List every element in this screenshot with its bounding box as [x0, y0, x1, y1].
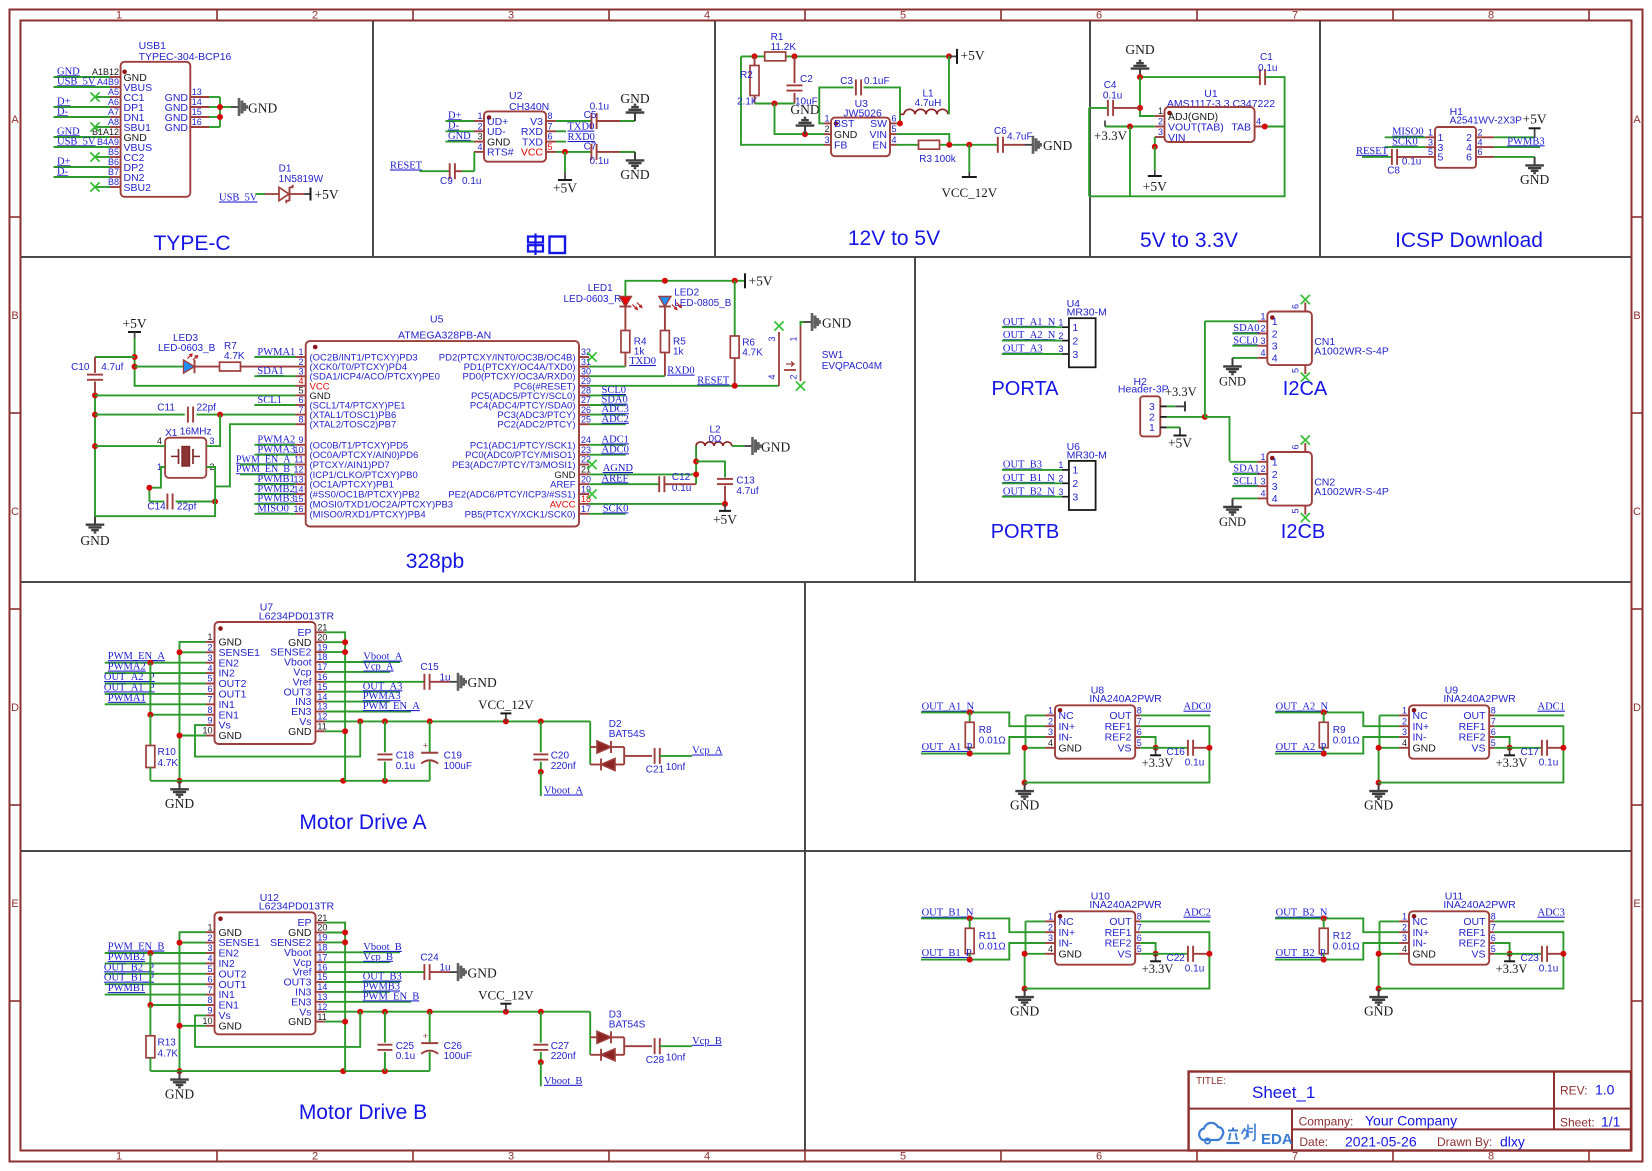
diode D1 1N5819W refdes: [279, 164, 324, 186]
net label Vboot_A below cap: [541, 772, 584, 797]
svg-text:14: 14: [317, 692, 327, 702]
svg-text:R8: R8: [979, 725, 992, 736]
net label PWMA1 / wire to U5 pin 1: [254, 347, 295, 358]
USB1 pin 16 (GND): [165, 117, 209, 134]
svg-text:Sheet_1: Sheet_1: [1252, 1083, 1315, 1102]
crystal X1 inner symbol: [171, 447, 200, 467]
resistor R6 4.7K: [730, 281, 763, 359]
svg-text:3: 3: [508, 1151, 514, 1163]
IC U3 body: [831, 118, 890, 157]
svg-text:AREF: AREF: [602, 473, 629, 484]
section title 5V to 3.3V: [1140, 229, 1238, 252]
U7 pin 21 (EP): [297, 623, 327, 639]
svg-text:+3.3V: +3.3V: [1496, 962, 1528, 976]
power flag VCC_12V: [478, 987, 534, 1011]
wire VIN down to +5V flag: [1152, 137, 1158, 150]
wire U9 NC pin to GND vertical: [1380, 715, 1399, 747]
svg-text:B5: B5: [108, 147, 119, 157]
net label OUT_B1_N / wire to U6 pin 2: [1002, 473, 1062, 484]
CN2 pin 1 marker dot: [1270, 456, 1275, 461]
U7 pin 10 (GND): [202, 726, 242, 742]
CN2 pin 1: [1257, 452, 1278, 469]
svg-text:7: 7: [207, 695, 212, 705]
U7 pin 15 (OUT3): [283, 682, 327, 698]
net label PWMB3 / wire on H1 pin 4: [1494, 136, 1544, 147]
H1 pin 2 right: [1466, 128, 1494, 145]
no-connect X on pin A5: [90, 92, 110, 101]
crystal X1 pin numbers: [157, 436, 215, 472]
CN1 pin 5 no-connect: [1290, 365, 1310, 382]
U12 pin 17 (Vcp): [293, 952, 327, 968]
wire VS to bypass cap: [1494, 747, 1542, 749]
section title 12V to 5V: [848, 227, 940, 250]
svg-text:0.1u: 0.1u: [396, 1051, 415, 1062]
svg-text:6: 6: [207, 974, 212, 984]
section divider vertical motorB/ina: [804, 851, 806, 1150]
U10 pin 5 (VS): [1117, 944, 1141, 960]
svg-text:4: 4: [1256, 117, 1261, 127]
USB1 pin B1A12 (GND): [92, 127, 147, 144]
crystal X1 16MHz refdes: [165, 427, 211, 440]
U9 pin 3 (IN-): [1399, 727, 1427, 743]
connector U6 MR30-M refdes: [1067, 441, 1107, 462]
net label D- / wire to pin B7: [54, 166, 111, 177]
net label ADC0 / wire on OUT pin: [1140, 702, 1211, 716]
power flag GND at L2: [745, 437, 791, 455]
svg-text:SDA0: SDA0: [1233, 323, 1259, 334]
title block Sheet number: [1560, 1114, 1621, 1130]
svg-text:Company:: Company:: [1299, 1115, 1354, 1129]
net label PWMA2 / wire to U5 pin 9: [254, 435, 295, 446]
net label RESET left of C9: [390, 161, 423, 172]
resistor R7 4.7K: [220, 341, 245, 371]
svg-text:OUT_A1_P: OUT_A1_P: [104, 682, 155, 693]
U5 pin 2 ((XCK0/T0/PTCXY)PD4): [296, 357, 408, 373]
svg-text:2: 2: [1058, 331, 1063, 341]
IC U8 body: [1055, 705, 1135, 758]
svg-text:5: 5: [1137, 944, 1142, 954]
svg-text:4.7K: 4.7K: [158, 1048, 179, 1059]
svg-text:5: 5: [298, 386, 303, 396]
net label PWM_EN_B / wire on U12 pin 13: [325, 991, 420, 1002]
svg-text:0.1u: 0.1u: [1185, 963, 1204, 974]
title block Company: [1299, 1113, 1457, 1129]
capacitor C22 0.1u: [1167, 946, 1205, 975]
U8 pin 4 (GND): [1045, 738, 1082, 754]
svg-text:B4A9: B4A9: [97, 137, 119, 147]
wire D2 common cathode: [624, 747, 652, 765]
svg-text:2: 2: [1402, 922, 1407, 932]
wire VIN to 12V node: [897, 134, 950, 145]
U4 pin 3: [1058, 344, 1078, 361]
wire C3 to SW node: [864, 87, 901, 123]
resistor R9 0.01 ohm: [1319, 712, 1360, 753]
svg-text:22pf: 22pf: [197, 403, 217, 414]
svg-text:6: 6: [1096, 1151, 1102, 1163]
wire CN2 pin 4 to GND: [1233, 497, 1258, 499]
svg-text:8: 8: [1137, 912, 1142, 922]
svg-text:TITLE:: TITLE:: [1196, 1076, 1226, 1087]
net label OUT_A2_N / wire to U4 pin 2: [1002, 330, 1062, 341]
section title TYPE-C: [153, 232, 230, 255]
svg-text:3: 3: [207, 653, 212, 663]
U1 pin 3 (VIN): [1155, 127, 1186, 144]
capacitor C13 4.7uf: [717, 476, 759, 498]
U12 pin 8 (EN1): [206, 995, 239, 1011]
net label PWMB1 / wire to U12 pin 7: [105, 983, 206, 995]
net label D+ / wire to pin A6: [54, 96, 111, 107]
wire C to GND flag: [430, 681, 451, 683]
power flag GND at SW1: [804, 313, 882, 372]
net label PWMA1 / wire to U7 pin 7: [105, 693, 206, 705]
no-connect X on pin B5: [90, 152, 110, 161]
section title I2CA: [1283, 378, 1328, 400]
svg-text:16MHz: 16MHz: [180, 427, 212, 438]
U7 pin 6 (OUT1): [206, 684, 247, 700]
svg-text:Vboot_A: Vboot_A: [544, 786, 584, 797]
svg-text:1.0: 1.0: [1595, 1082, 1615, 1098]
capacitor C5 0.1u: [584, 102, 609, 130]
svg-text:0.1u: 0.1u: [590, 156, 609, 167]
U3 pin 3 (FB): [824, 135, 847, 152]
USB1 pin 1 marker dot: [122, 70, 127, 75]
wire H1 pin 2 to +5V: [1494, 136, 1534, 138]
capacitor C6 4.7uF: [994, 126, 1033, 153]
svg-text:4: 4: [207, 663, 212, 673]
svg-text:C11: C11: [157, 403, 175, 414]
net label D+ / wire to pin B6: [54, 156, 111, 167]
svg-text:2: 2: [1072, 478, 1078, 490]
U11 pin 1 (NC): [1399, 912, 1428, 928]
svg-text:GND: GND: [248, 101, 277, 116]
U5 pin 14 ((#SS0/OC1B/PTCXY)PB2): [293, 484, 419, 500]
ground symbol motor driver: [165, 1071, 194, 1101]
svg-text:8: 8: [1491, 912, 1496, 922]
svg-text:VCC_12V: VCC_12V: [941, 185, 997, 200]
svg-text:Vcp_B: Vcp_B: [692, 1036, 722, 1047]
section divider vertical 3.3V/ICSP: [1319, 21, 1321, 257]
capacitor C25 0.1u: [377, 1012, 415, 1071]
U5 pin 12 ((ICP1/CLKO/PTCXY)PB0): [293, 465, 417, 481]
svg-text:8: 8: [207, 995, 212, 1005]
section divider horizontal 3: [21, 850, 1631, 852]
U2 pin 8 (V3): [530, 111, 556, 128]
U9 pin 2 (IN+): [1399, 716, 1429, 732]
svg-text:1: 1: [207, 922, 212, 932]
svg-text:16: 16: [317, 672, 327, 682]
power flag +5V above C10: [123, 316, 147, 338]
svg-text:R11: R11: [979, 931, 997, 942]
svg-text:10nf: 10nf: [666, 1052, 686, 1063]
U11 pin 1 marker dot: [1412, 914, 1417, 919]
wire GND rail to X1 pin 4: [95, 445, 165, 447]
H1 pin 1 left: [1425, 128, 1443, 145]
U5 pin 25 (PC2(ADC2/PTCY)): [497, 414, 591, 430]
U5 pin 17 (PB5(PTCXY/XCK1/SCK0)): [465, 504, 591, 520]
svg-text:RXD0: RXD0: [667, 366, 694, 377]
U5 pin 10 ((OC0A/PTCXY/AIN0)PD6): [293, 445, 418, 461]
svg-text:7: 7: [207, 985, 212, 995]
svg-text:4.7uf: 4.7uf: [736, 486, 758, 497]
wire C5 to GND: [597, 120, 636, 122]
LED3 LED-0603_B refdes: [158, 333, 216, 354]
USB1 pin B8 (SBU2): [108, 177, 151, 194]
U12 pin 21 (EP): [297, 913, 327, 929]
title block sheet name Sheet_1: [1252, 1083, 1315, 1102]
net label OUT_B3 / wire on U12 pin 15: [325, 972, 402, 983]
IC U11 body: [1409, 911, 1489, 964]
capacitor C7 0.1u: [584, 142, 609, 167]
net label SCL0 / wire on U5 pin 28: [589, 385, 626, 396]
svg-text:5: 5: [548, 142, 553, 152]
wire GND bus right of USB1: [209, 97, 231, 127]
header H1 A2541WV-2X3P refdes: [1450, 106, 1523, 127]
svg-text:LED-0805_B: LED-0805_B: [674, 298, 732, 309]
power flag +3.3V at U10: [1142, 954, 1174, 976]
svg-text:ADC2: ADC2: [602, 414, 629, 425]
svg-text:PWM_EN_A: PWM_EN_A: [108, 651, 166, 662]
svg-text:2: 2: [1260, 464, 1265, 474]
U2 pin 2 (UD-): [474, 121, 506, 138]
wire U7 pin 16 Vref to C15: [325, 681, 425, 683]
svg-text:R13: R13: [158, 1037, 177, 1048]
net label PWM_EN_A / wire to U7 pin 3: [105, 651, 206, 666]
U9 pin 7 (REF1): [1459, 716, 1496, 732]
U5 pin 22 (PE3(ADC7/PTCY/T3/MOSI1)): [452, 455, 591, 471]
CN1 pin 6 no-connect: [1290, 295, 1310, 312]
USB1 pin B7 (DN2): [108, 167, 145, 184]
svg-text:A5: A5: [108, 87, 119, 97]
section divider vertical TYPE-C/serial: [372, 21, 374, 257]
capacitor C20 220nf: [533, 721, 576, 772]
capacitor C28 10nf: [646, 1038, 686, 1066]
svg-text:VCC: VCC: [521, 147, 544, 159]
net label Vboot_A / wire on U7 pin 18: [325, 652, 403, 663]
U3 pin 1 (BST): [824, 113, 855, 130]
net label PWM_EN_A / wire to U5 pin 11: [236, 454, 296, 465]
wire +5V vertical to VCC pin 4: [132, 338, 296, 386]
svg-text:TYPE-C: TYPE-C: [153, 232, 230, 255]
switch SW1 EVQPAC04M: [779, 326, 801, 386]
svg-text:GND: GND: [468, 965, 497, 980]
svg-text:1: 1: [1149, 422, 1155, 434]
svg-text:OUT_B1_P: OUT_B1_P: [104, 973, 154, 984]
svg-text:GND: GND: [1520, 172, 1549, 187]
svg-text:Vboot_B: Vboot_B: [544, 1076, 583, 1087]
H1 pin 4 right: [1466, 137, 1494, 154]
power flag +3.3V: [1094, 121, 1128, 144]
svg-text:C1: C1: [1260, 52, 1273, 63]
svg-text:5: 5: [1137, 738, 1142, 748]
IC U2 CH340N refdes: [509, 90, 549, 113]
svg-text:+5V: +5V: [553, 181, 577, 196]
svg-text:GND: GND: [219, 730, 243, 742]
svg-text:3: 3: [1428, 137, 1433, 147]
wire R2/C2 bottom node: [755, 101, 795, 107]
power flag +3.3V at U8: [1142, 748, 1174, 770]
svg-text:A1002WR-S-4P: A1002WR-S-4P: [1314, 486, 1389, 498]
svg-text:1: 1: [1402, 912, 1407, 922]
IC U10 INA240A2PWR refdes: [1089, 891, 1162, 911]
U7 pin 7 (IN1): [206, 695, 235, 711]
svg-text:A2541WV-2X3P: A2541WV-2X3P: [1450, 116, 1523, 127]
IC U3 JW5026 refdes: [843, 98, 882, 120]
power flag +5V below VCC node: [553, 152, 577, 196]
svg-text:2: 2: [477, 121, 482, 131]
svg-text:B: B: [1633, 310, 1640, 322]
svg-text:23: 23: [581, 445, 591, 455]
net label TXD0 / wire on U2 pin 7: [556, 122, 594, 133]
svg-text:4: 4: [298, 376, 303, 386]
IC U1 AMS1117-3.3 refdes: [1167, 88, 1275, 110]
svg-text:VS: VS: [1117, 742, 1131, 754]
wire SW1 pin 1 to GND flag: [801, 322, 805, 326]
section title ICSP Download: [1395, 229, 1543, 252]
svg-text:LED-0603_B: LED-0603_B: [158, 343, 216, 354]
section title 328pb: [406, 550, 464, 573]
svg-text:1: 1: [1048, 706, 1053, 716]
U7 pin 1 (GND): [206, 632, 242, 648]
net label SCK0 / wire on U5 pin 17: [589, 503, 628, 514]
diode D3 top: [590, 1031, 624, 1043]
svg-text:2021-05-26: 2021-05-26: [1345, 1134, 1417, 1150]
svg-text:20: 20: [581, 474, 591, 484]
svg-text:USB_5V: USB_5V: [57, 136, 96, 147]
svg-text:15: 15: [192, 107, 202, 117]
svg-text:5: 5: [207, 964, 212, 974]
IC U5 body: [306, 341, 579, 526]
svg-text:14: 14: [293, 484, 303, 494]
svg-text:D1: D1: [279, 164, 292, 175]
IC U2 body: [484, 111, 546, 161]
U3 pin 6 (SW): [870, 113, 897, 130]
net label PWMA3 / wire on U7 pin 14: [325, 691, 401, 702]
svg-text:2: 2: [824, 124, 829, 134]
SW1 pin numbers: [767, 336, 799, 379]
ground symbol at U3 GND: [790, 102, 819, 134]
svg-text:+5V: +5V: [713, 512, 737, 527]
wire D3 common cathode: [624, 1037, 652, 1055]
header H2 body: [1140, 396, 1160, 436]
svg-text:4.7uH: 4.7uH: [915, 98, 942, 109]
U2 pin 4 (RTS#): [474, 142, 514, 159]
U11 pin 2 (IN+): [1399, 922, 1429, 938]
svg-text:GND: GND: [790, 102, 819, 117]
CN1 pin 1 marker dot: [1270, 315, 1275, 320]
svg-text:11: 11: [294, 455, 303, 465]
capacitor C17 0.1u: [1521, 740, 1559, 769]
svg-text:3: 3: [1402, 933, 1407, 943]
svg-text:2: 2: [1272, 469, 1278, 481]
resistor R1 11.2K: [765, 32, 797, 61]
svg-text:3: 3: [1048, 933, 1053, 943]
svg-text:TXD0: TXD0: [568, 122, 595, 133]
net label OUT_A3 / wire to U4 pin 3: [1002, 344, 1062, 355]
svg-text:3: 3: [1402, 727, 1407, 737]
svg-text:7: 7: [1491, 922, 1496, 932]
wire C12 to L2 node: [664, 483, 696, 485]
svg-text:TAB: TAB: [1231, 121, 1251, 133]
svg-text:D-: D-: [57, 166, 69, 177]
net label ADC3 / wire on U5 pin 26: [589, 404, 629, 415]
svg-text:11.2K: 11.2K: [771, 42, 797, 53]
svg-text:ADC2: ADC2: [1184, 908, 1211, 919]
svg-text:Drawn By:: Drawn By:: [1437, 1135, 1492, 1149]
diode D2 BAT54S refdes: [609, 719, 646, 740]
svg-text:13: 13: [317, 702, 327, 712]
U11 pin 5 (VS): [1471, 944, 1495, 960]
svg-text:0.1u: 0.1u: [462, 176, 481, 187]
CN2 pin 4: [1257, 489, 1278, 506]
section title 串口 (serial) drawn glyphs: [528, 234, 565, 256]
svg-text:12: 12: [317, 1002, 327, 1012]
U11 pin 3 (IN-): [1399, 933, 1427, 949]
U7 pin 1 marker dot: [218, 626, 223, 631]
U12 pin 9 (Vs): [206, 1006, 231, 1022]
svg-text:RTS#: RTS#: [487, 147, 514, 159]
CN1 pin 3: [1257, 336, 1278, 353]
capacitor C11 22pf: [157, 403, 216, 423]
svg-text:8: 8: [298, 414, 303, 424]
net label RXD0 / wire on U2 pin 6: [556, 132, 595, 143]
ground symbol at C5: [620, 91, 649, 121]
svg-text:1: 1: [1072, 322, 1078, 334]
svg-text:8: 8: [1488, 10, 1494, 22]
wire GND rail bottom left: [150, 1068, 429, 1074]
svg-text:C21: C21: [646, 765, 665, 776]
wire left rail to FB: [741, 56, 824, 144]
U7 pin 13 (EN3): [291, 702, 327, 718]
junction dots on top rail: [752, 53, 953, 59]
IC U7 L6234PD013TR refdes: [259, 602, 335, 623]
svg-text:100uF: 100uF: [444, 761, 472, 772]
svg-text:2.1K: 2.1K: [737, 97, 758, 108]
U10 pin 7 (REF1): [1105, 922, 1142, 938]
svg-text:E: E: [1633, 898, 1640, 910]
CN1 pin 4: [1257, 348, 1278, 365]
capacitor C21 10nf: [646, 748, 686, 776]
svg-text:D-: D-: [57, 106, 69, 117]
net label OUT_B1_P / wire to U12 pin 6: [104, 973, 206, 985]
svg-text:VCC_12V: VCC_12V: [478, 987, 534, 1002]
svg-text:0.1uF: 0.1uF: [864, 76, 890, 87]
CN2 pin 6 no-connect: [1290, 435, 1310, 452]
wire R7 to U5 pin 2: [241, 366, 296, 368]
U7 pin 16 (Vref): [293, 672, 328, 688]
svg-text:9: 9: [207, 1006, 212, 1016]
ground symbol at U8: [1010, 783, 1039, 813]
IC U9 body: [1409, 705, 1489, 758]
U9 pin 1 marker dot: [1412, 708, 1417, 713]
svg-text:C12: C12: [672, 472, 691, 483]
svg-text:4: 4: [207, 954, 212, 964]
wire C10 bottom to GND rail: [92, 382, 98, 517]
U5 pin 4 (VCC): [296, 376, 330, 392]
wire I2C power rail vertical: [1204, 321, 1206, 417]
svg-text:4.7uF: 4.7uF: [1007, 132, 1033, 143]
svg-text:MR30-M: MR30-M: [1067, 449, 1107, 461]
wire EN tie vertical to pin 8: [147, 953, 206, 1008]
svg-text:C9: C9: [440, 176, 453, 187]
wire TAB to output loop: [1262, 124, 1285, 130]
svg-text:9: 9: [298, 435, 303, 445]
power flag VCC_12V: [478, 697, 534, 721]
U12 pin 1 marker dot: [218, 917, 223, 922]
U12 pin 5 (OUT2): [206, 964, 247, 980]
net label AGND / wire U5 pin 21 to L2: [589, 463, 696, 474]
svg-text:+5V: +5V: [1523, 112, 1547, 127]
svg-text:1: 1: [477, 111, 482, 121]
